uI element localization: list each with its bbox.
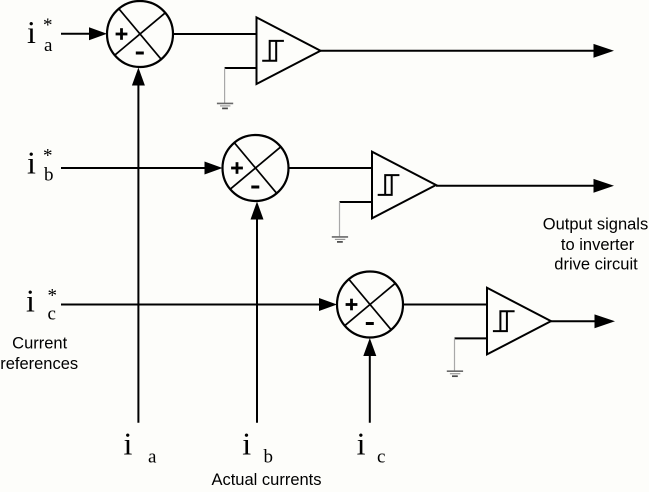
ground stem G3 xyxy=(454,338,456,370)
svg-text:references: references xyxy=(0,355,78,373)
ground G1 xyxy=(217,103,233,108)
node label i_b (actual current b) xyxy=(242,426,273,468)
hysteresis symbol U3 xyxy=(493,311,515,331)
svg-text:c: c xyxy=(377,446,385,467)
summing junction S1 xyxy=(107,1,173,67)
wire i_b feedback vertical with arrowhead xyxy=(251,202,264,423)
svg-text:b: b xyxy=(44,165,54,186)
wire U3 lower input xyxy=(455,337,488,339)
wire S3 to comparator U3 xyxy=(403,304,487,306)
svg-text:i: i xyxy=(242,426,251,462)
hysteresis symbol U2 xyxy=(378,175,400,195)
svg-text:a: a xyxy=(44,35,53,56)
wire i_c feedback vertical with arrowhead xyxy=(363,338,376,423)
wire i_a feedback vertical with arrowhead xyxy=(132,68,145,423)
comparator U2 (hysteresis) xyxy=(372,152,436,219)
svg-text:a: a xyxy=(148,446,157,467)
node label i_b* (current reference b) xyxy=(27,145,54,186)
plus sign S1 xyxy=(116,28,128,40)
svg-text:c: c xyxy=(48,303,56,324)
wire S2 to comparator U2 xyxy=(289,167,373,169)
ground G3 xyxy=(447,371,463,376)
svg-text:*: * xyxy=(43,15,53,36)
plus sign S2 xyxy=(231,162,243,174)
ground G2 xyxy=(332,237,348,242)
svg-text:to inverter: to inverter xyxy=(561,236,635,254)
node label i_a* (current reference a) xyxy=(27,14,53,56)
wire i_c* input with arrowhead xyxy=(61,298,337,311)
wire U2 lower input xyxy=(340,201,373,203)
node label i_c (actual current c) xyxy=(357,426,386,468)
svg-text:i: i xyxy=(27,14,36,50)
ground stem G1 xyxy=(224,68,226,103)
wire U1 lower input xyxy=(225,67,257,69)
wire S1 to comparator U1 xyxy=(173,33,257,35)
minus sign S2 xyxy=(251,186,259,189)
summing junction S2 xyxy=(223,135,289,201)
hysteresis symbol U1 xyxy=(262,41,284,61)
ground stem G2 xyxy=(339,202,341,237)
svg-text:i: i xyxy=(124,426,133,462)
comparator U3 (hysteresis) xyxy=(487,288,551,355)
svg-text:i: i xyxy=(357,426,366,462)
svg-text:i: i xyxy=(26,283,35,319)
wire U2 output with arrowhead xyxy=(436,179,614,193)
wire U1 output with arrowhead xyxy=(321,44,615,58)
wire i_b* input with arrowhead xyxy=(61,162,223,175)
comparator U1 (hysteresis) xyxy=(257,17,321,84)
minus sign S1 xyxy=(136,52,144,55)
summing junction S3 xyxy=(337,272,403,338)
wire i_a* input with arrowhead xyxy=(61,27,107,40)
wire U3 output with arrowhead xyxy=(551,314,615,328)
minus sign S3 xyxy=(366,322,374,325)
svg-text:b: b xyxy=(264,446,274,467)
svg-text:Actual currents: Actual currents xyxy=(211,471,321,489)
svg-text:drive circuit: drive circuit xyxy=(554,255,638,273)
caption: Output signals to inverter drive circuit xyxy=(543,216,648,274)
node label i_a (actual current a) xyxy=(124,426,158,468)
svg-text:Current: Current xyxy=(12,334,67,352)
plus sign S3 xyxy=(346,299,358,311)
svg-text:Output signals: Output signals xyxy=(543,216,648,234)
node label i_c* (current reference c) xyxy=(26,283,57,325)
caption: Current references xyxy=(0,334,78,373)
svg-text:i: i xyxy=(27,145,36,181)
